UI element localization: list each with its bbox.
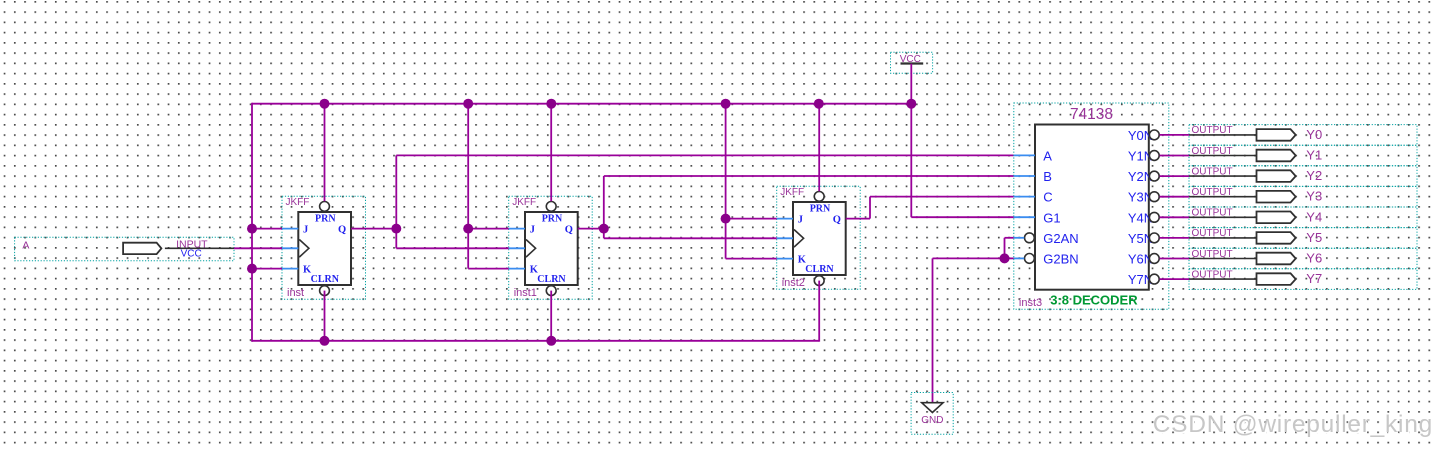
wire: GND to G2 node bbox=[933, 257, 1005, 259]
output pin Y5: selection box bbox=[1189, 228, 1417, 249]
decoder output bubble Y2N bbox=[1149, 171, 1159, 181]
wire: Q of inst2 right bbox=[846, 218, 870, 220]
junction on top bus at x=468.2 bbox=[463, 99, 473, 109]
junction on top bus at x=725.6 bbox=[721, 99, 731, 109]
JK flip-flop inst: selection box bbox=[282, 196, 366, 299]
wire: bottom CLRN bus bbox=[252, 340, 819, 342]
wire: top VCC bus bbox=[252, 103, 911, 105]
svg-text:VCC: VCC bbox=[181, 248, 202, 259]
svg-text:C: C bbox=[1043, 190, 1052, 205]
output pin symbol Y0 bbox=[1257, 129, 1296, 141]
wire: Q of inst to node bbox=[351, 228, 396, 230]
output pin Y3: selection box bbox=[1189, 186, 1417, 207]
svg-text:CLRN: CLRN bbox=[805, 264, 834, 275]
svg-text:J: J bbox=[303, 225, 308, 236]
JK flip-flop inst: clock triangle bbox=[299, 240, 309, 258]
wire: VCC vertical to K of inst bbox=[252, 268, 282, 270]
input pin symbol bbox=[123, 243, 161, 254]
junction on top bus at x=551.3 bbox=[546, 99, 556, 109]
svg-text:Y6: Y6 bbox=[1306, 251, 1322, 266]
wire: CLRN of inst1 to bottom bus bbox=[550, 291, 552, 341]
output pin symbol Y6 bbox=[1257, 253, 1296, 265]
ground symbol GND: triangle bbox=[922, 403, 943, 413]
output pin Y0: selection box bbox=[1189, 125, 1417, 146]
wire: black lead of pin Y6 bbox=[1189, 258, 1258, 260]
wire: Q0 to clock of inst1 bbox=[396, 247, 508, 249]
stub A bbox=[1014, 154, 1035, 156]
wire: input pin to box edge (black) bbox=[165, 247, 234, 249]
wire: CLRN of inst2 to bottom bus bbox=[818, 281, 820, 342]
svg-text:OUTPUT: OUTPUT bbox=[1192, 187, 1233, 198]
svg-text:Y5: Y5 bbox=[1306, 230, 1322, 245]
output pin symbol Y7 bbox=[1257, 273, 1296, 285]
output pin symbol Y2 bbox=[1257, 170, 1296, 182]
power symbol VCC: bar bbox=[901, 62, 924, 64]
svg-text:OUTPUT: OUTPUT bbox=[1192, 125, 1233, 136]
svg-text:Y1: Y1 bbox=[1306, 148, 1322, 163]
output pin Y4: selection box bbox=[1189, 207, 1417, 228]
svg-text:JKFF: JKFF bbox=[512, 197, 536, 208]
junction GND / G2BN bbox=[1000, 253, 1010, 263]
wire: GND vertical bbox=[932, 258, 934, 410]
CLRN bubble of inst bbox=[320, 286, 330, 296]
K input stub of inst bbox=[282, 268, 298, 270]
svg-text:Y3: Y3 bbox=[1306, 189, 1322, 204]
ground symbol GND: selection box bbox=[911, 393, 953, 435]
wire: black lead of pin Y7 bbox=[1189, 278, 1258, 280]
svg-text:74138: 74138 bbox=[1070, 106, 1113, 123]
clock input stub of inst1 bbox=[509, 247, 525, 249]
junction node Q0 bbox=[391, 224, 401, 234]
svg-text:PRN: PRN bbox=[810, 203, 831, 214]
svg-text:K: K bbox=[530, 265, 539, 276]
svg-text:JKFF: JKFF bbox=[780, 187, 804, 198]
wire: CLRN of inst to bottom bus bbox=[324, 291, 326, 341]
wire: to J of inst1 bbox=[468, 228, 509, 230]
svg-text:B: B bbox=[1043, 169, 1052, 184]
output pin Y2: selection box bbox=[1189, 166, 1417, 187]
junction J tie of inst bbox=[247, 224, 257, 234]
PRN bubble of inst bbox=[320, 202, 330, 212]
wire: top bus to PRN of inst1 bbox=[550, 104, 552, 202]
JK flip-flop inst2: selection box bbox=[777, 186, 861, 289]
wire: Y1N bubble to pin box bbox=[1160, 155, 1189, 157]
stub C bbox=[1014, 196, 1035, 198]
svg-text:Q: Q bbox=[833, 215, 841, 226]
decoder active-low bubble G2AN bbox=[1025, 233, 1035, 243]
wire: to G2AN bbox=[1005, 237, 1014, 239]
output pin symbol Y5 bbox=[1257, 232, 1296, 244]
wire: Q0 to decoder input A row bbox=[396, 154, 1014, 156]
JK flip-flop inst1: body bbox=[525, 212, 578, 285]
wire: black lead of pin Y4 bbox=[1189, 216, 1258, 218]
wire: to G2BN bbox=[1005, 257, 1014, 259]
svg-text:inst3: inst3 bbox=[1019, 297, 1042, 309]
wire: to K of inst2 bbox=[726, 258, 777, 260]
wire: Y6N bubble to pin box bbox=[1160, 258, 1189, 260]
wire: Y2N bubble to pin box bbox=[1160, 175, 1189, 177]
wire: input A to clock of inst bbox=[234, 247, 282, 249]
decoder output bubble Y6N bbox=[1149, 254, 1159, 264]
svg-text:Q: Q bbox=[565, 225, 573, 236]
CLRN bubble of inst2 bbox=[814, 276, 824, 286]
JK flip-flop inst2: body bbox=[793, 202, 846, 275]
decoder U-74138 inst3: selection box bbox=[1014, 103, 1169, 309]
svg-text:K: K bbox=[798, 255, 807, 266]
wire: Q1 to clock of inst2 bbox=[604, 237, 777, 239]
decoder output bubble Y4N bbox=[1149, 212, 1159, 222]
J input stub of inst2 bbox=[777, 218, 793, 220]
svg-text:OUTPUT: OUTPUT bbox=[1192, 208, 1233, 219]
svg-text:Y7: Y7 bbox=[1306, 271, 1322, 286]
wire: top bus down to J/K of inst1 bbox=[467, 103, 469, 269]
wire: G2AN/G2BN tie vertical bbox=[1004, 238, 1006, 259]
input pin A: selection box bbox=[15, 237, 234, 260]
svg-text:GND: GND bbox=[921, 415, 943, 426]
K input stub of inst1 bbox=[509, 268, 525, 270]
wire: to J of inst2 bbox=[726, 218, 777, 220]
output pin Y1: selection box bbox=[1189, 145, 1417, 166]
PRN bubble of inst2 bbox=[814, 192, 824, 202]
junction on top bus at x=818.8 bbox=[814, 99, 824, 109]
clock input stub of inst bbox=[282, 247, 298, 249]
wire: Q of inst1 to node bbox=[578, 228, 604, 230]
wire: top bus down to J/K of inst2 bbox=[725, 103, 727, 259]
JK flip-flop inst1: selection box bbox=[509, 196, 593, 299]
decoder output bubble Y3N bbox=[1149, 192, 1159, 202]
svg-text:J: J bbox=[530, 225, 535, 236]
wire: Y7N bubble to pin box bbox=[1160, 278, 1189, 280]
svg-text:Q: Q bbox=[338, 225, 346, 236]
wire: Q1 to decoder input B row bbox=[604, 175, 1014, 177]
J input stub of inst bbox=[282, 228, 298, 230]
wire: Y4N bubble to pin box bbox=[1160, 216, 1189, 218]
wire: black lead of pin Y1 bbox=[1189, 155, 1258, 157]
wire: black lead of pin Y5 bbox=[1189, 237, 1258, 239]
stub G2BN bbox=[1014, 257, 1024, 259]
decoder active-low bubble G2BN bbox=[1025, 254, 1035, 264]
svg-text:K: K bbox=[303, 265, 312, 276]
svg-text:inst1: inst1 bbox=[514, 287, 537, 299]
svg-text:OUTPUT: OUTPUT bbox=[1192, 249, 1233, 260]
svg-text:CLRN: CLRN bbox=[311, 274, 340, 285]
svg-text:CSDN @wirepuller_king: CSDN @wirepuller_king bbox=[1153, 411, 1433, 438]
wire: Q0 vertical bbox=[395, 155, 397, 248]
wire: black lead of pin Y2 bbox=[1189, 175, 1258, 177]
K input stub of inst2 bbox=[777, 258, 793, 260]
clock input stub of inst2 bbox=[777, 237, 793, 239]
wire: VCC down to G1 row bbox=[910, 64, 912, 218]
svg-text:JKFF: JKFF bbox=[286, 197, 310, 208]
decoder output bubble Y1N bbox=[1149, 151, 1159, 161]
power symbol VCC: selection box bbox=[891, 52, 933, 73]
junction CLRN of inst on bottom bus bbox=[320, 336, 330, 346]
svg-text:Y4: Y4 bbox=[1306, 209, 1322, 224]
svg-text:A: A bbox=[22, 240, 29, 252]
output pin symbol Y1 bbox=[1257, 150, 1296, 162]
svg-text:Y2: Y2 bbox=[1306, 168, 1322, 183]
wire: Y0N bubble to pin box bbox=[1160, 134, 1189, 136]
svg-text:OUTPUT: OUTPUT bbox=[1192, 146, 1233, 157]
JK flip-flop inst2: clock triangle bbox=[794, 230, 804, 248]
svg-text:PRN: PRN bbox=[315, 213, 336, 224]
svg-text:OUTPUT: OUTPUT bbox=[1192, 166, 1233, 177]
junction J of inst2 bbox=[721, 214, 731, 224]
JK flip-flop inst1: clock triangle bbox=[526, 240, 536, 258]
junction node Q1 bbox=[599, 224, 609, 234]
wire: top bus to PRN of inst bbox=[324, 104, 326, 202]
svg-text:A: A bbox=[1043, 149, 1052, 164]
output pin Y7: selection box bbox=[1189, 269, 1417, 290]
wire: black lead of pin Y3 bbox=[1189, 196, 1258, 198]
svg-text:inst2: inst2 bbox=[782, 277, 805, 289]
decoder 74138: body bbox=[1035, 125, 1149, 290]
wire: left vertical (VCC tie to J/K of inst) bbox=[251, 103, 253, 342]
stub B bbox=[1014, 175, 1035, 177]
decoder output bubble Y5N bbox=[1149, 233, 1159, 243]
junction on top bus at x=911.3 bbox=[906, 99, 916, 109]
wire: Y3N bubble to pin box bbox=[1160, 196, 1189, 198]
wire: VCC to decoder G1 bbox=[911, 216, 1014, 218]
decoder output bubble Y7N bbox=[1149, 274, 1159, 284]
decoder output bubble Y0N bbox=[1149, 130, 1159, 140]
wire: top bus to PRN of inst2 bbox=[818, 104, 820, 192]
J input stub of inst1 bbox=[509, 228, 525, 230]
stub G2AN bbox=[1014, 237, 1024, 239]
wire: VCC vertical to J of inst bbox=[252, 228, 282, 230]
svg-text:CLRN: CLRN bbox=[537, 274, 566, 285]
output pin symbol Y3 bbox=[1257, 191, 1296, 203]
junction K tie of inst bbox=[247, 264, 257, 274]
wire: Q1 vertical bbox=[603, 176, 605, 238]
junction J of inst1 bbox=[463, 224, 473, 234]
svg-text:G2BN: G2BN bbox=[1043, 252, 1078, 267]
wire: to K of inst1 bbox=[468, 268, 509, 270]
output pin Y6: selection box bbox=[1189, 248, 1417, 269]
svg-text:3:8 DECODER: 3:8 DECODER bbox=[1050, 293, 1138, 308]
wire: black lead of pin Y0 bbox=[1189, 134, 1258, 136]
svg-text:OUTPUT: OUTPUT bbox=[1192, 228, 1233, 239]
CLRN bubble of inst1 bbox=[546, 286, 556, 296]
wire: Q2 vertical bbox=[869, 197, 871, 219]
svg-text:OUTPUT: OUTPUT bbox=[1192, 269, 1233, 280]
wire: Q2 to decoder input C row bbox=[870, 196, 1014, 198]
stub G1 bbox=[1014, 216, 1035, 218]
junction on top bus at x=324.5 bbox=[320, 99, 330, 109]
output pin symbol Y4 bbox=[1257, 212, 1296, 224]
svg-text:Y0: Y0 bbox=[1306, 127, 1322, 142]
svg-text:inst: inst bbox=[287, 287, 304, 299]
junction CLRN of inst1 on bottom bus bbox=[546, 336, 556, 346]
svg-text:J: J bbox=[798, 215, 803, 226]
JK flip-flop inst: body bbox=[298, 212, 351, 285]
svg-text:G2AN: G2AN bbox=[1043, 231, 1078, 246]
svg-text:G1: G1 bbox=[1043, 210, 1060, 225]
svg-text:PRN: PRN bbox=[542, 213, 563, 224]
wire: Y5N bubble to pin box bbox=[1160, 237, 1189, 239]
PRN bubble of inst1 bbox=[546, 202, 556, 212]
